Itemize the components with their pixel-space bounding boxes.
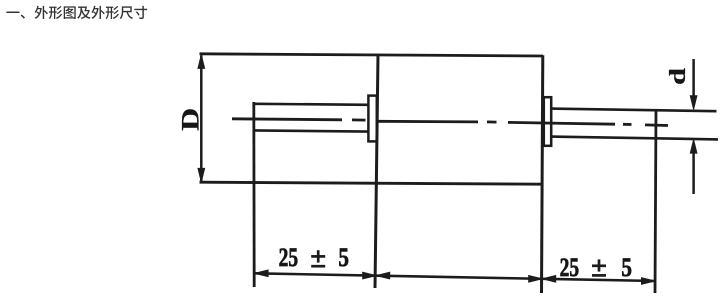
svg-text:5: 5	[621, 253, 632, 282]
svg-text:25: 25	[560, 253, 580, 282]
svg-text:25: 25	[279, 243, 299, 272]
svg-text:d: d	[665, 68, 690, 85]
svg-text:D: D	[178, 108, 205, 131]
svg-text:5: 5	[338, 243, 349, 272]
